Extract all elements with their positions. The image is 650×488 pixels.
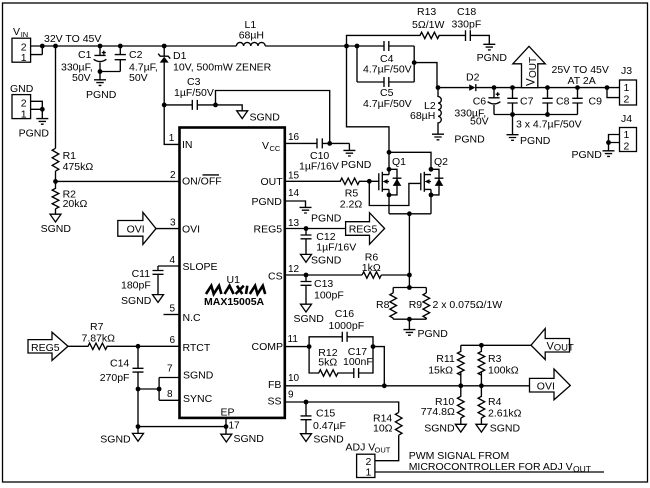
svg-text:12: 12: [288, 264, 300, 275]
svg-text:68µH: 68µH: [239, 30, 264, 42]
node VIN junction: [40, 44, 45, 49]
connector GND (J2) box: [10, 83, 34, 120]
svg-text:R7: R7: [90, 321, 104, 333]
svg-text:R4: R4: [488, 396, 502, 408]
capacitor C9: [572, 88, 602, 115]
resistor R9: [393, 288, 502, 320]
svg-text:R11: R11: [436, 353, 455, 365]
ground PGND pin 14: [300, 207, 312, 213]
node C15: [304, 400, 309, 405]
svg-text:IN: IN: [182, 139, 193, 151]
node C14 / SYNC branch: [136, 387, 141, 392]
node R3 top: [479, 343, 484, 348]
svg-text:C1: C1: [78, 49, 92, 61]
svg-text:SGND: SGND: [100, 434, 131, 446]
wire J4 pins to ground: [609, 135, 620, 151]
inductor L1: [236, 19, 265, 46]
svg-text:V: V: [526, 78, 538, 86]
svg-text:OVI: OVI: [537, 381, 555, 393]
svg-text:N.C: N.C: [183, 312, 202, 324]
svg-text:1µF/16V: 1µF/16V: [316, 242, 356, 254]
node R8R9 bottom: [407, 317, 412, 322]
svg-text:PGND: PGND: [19, 128, 50, 140]
svg-text:0.47µF: 0.47µF: [313, 420, 346, 432]
ground PGND below J4: [603, 151, 615, 157]
svg-text:OUT: OUT: [528, 57, 539, 78]
ground PGND below C18: [483, 44, 495, 50]
wire J3 pin2: [607, 88, 620, 98]
node R6 / sense column: [407, 273, 412, 278]
capacitor C6 (electrolytic): [454, 88, 500, 128]
svg-text:1: 1: [21, 52, 27, 64]
svg-text:SGND: SGND: [294, 313, 325, 325]
svg-text:1µF/16V: 1µF/16V: [299, 161, 339, 173]
resistor R13: [347, 6, 466, 46]
svg-text:SS: SS: [268, 396, 282, 408]
svg-text:1000pF: 1000pF: [329, 320, 365, 332]
ground PGND below R8R9: [403, 319, 415, 335]
svg-text:C15: C15: [316, 408, 335, 420]
svg-text:1kΩ: 1kΩ: [362, 262, 381, 274]
svg-text:IN: IN: [21, 30, 29, 39]
capacitor C8: [542, 88, 569, 115]
resistor R4: [478, 386, 522, 425]
ground SGND below R10: [455, 424, 466, 432]
node Q2 source: [429, 193, 434, 198]
svg-text:5kΩ: 5kΩ: [318, 357, 337, 369]
wire switch node row: [437, 87, 469, 89]
node COMP left: [307, 344, 312, 349]
svg-text:U1: U1: [227, 274, 241, 286]
wire to SGND/SYNC bracket: [138, 378, 180, 401]
svg-text:3: 3: [170, 218, 176, 229]
connector J4: [620, 113, 637, 153]
svg-text:C11: C11: [132, 268, 151, 280]
svg-text:14: 14: [288, 188, 300, 199]
node rail C4 tap: [355, 44, 360, 49]
svg-text:ADJ V: ADJ V: [346, 442, 376, 454]
svg-text:180pF: 180pF: [121, 280, 151, 292]
svg-text:SGND: SGND: [183, 370, 214, 382]
flag REG5 output: [346, 213, 385, 245]
node C3 left / D1 bottom: [162, 103, 167, 108]
wire ADJ pin1 PWM line: [375, 471, 604, 473]
svg-text:7: 7: [167, 364, 173, 375]
wire divider top bar to VOUT flag: [461, 344, 531, 346]
svg-text:2: 2: [624, 141, 630, 153]
capacitor C16: [309, 308, 373, 347]
svg-text:ON/OFF: ON/OFF: [182, 176, 222, 188]
svg-text:4: 4: [170, 255, 176, 266]
ground PGND below L2: [432, 134, 444, 140]
svg-text:V: V: [262, 140, 269, 152]
svg-text:1: 1: [21, 108, 27, 120]
svg-text:OUT: OUT: [261, 176, 284, 188]
svg-text:Q1: Q1: [392, 156, 406, 168]
svg-text:V: V: [13, 26, 20, 38]
svg-text:CS: CS: [268, 271, 283, 283]
capacitor C11 on SLOPE: [121, 266, 180, 295]
node C6 top: [492, 85, 497, 90]
svg-text:C8: C8: [556, 96, 570, 108]
svg-text:C14: C14: [110, 358, 129, 370]
svg-text:10: 10: [288, 373, 300, 384]
node source sense: [407, 211, 412, 216]
ground SGND below C13: [301, 304, 312, 312]
flag REG5 source to RTCT: [28, 332, 68, 360]
ground PGND right of C10: [343, 150, 355, 156]
svg-text:SGND: SGND: [424, 423, 455, 435]
svg-text:16: 16: [288, 132, 300, 143]
svg-text:SGND: SGND: [234, 433, 265, 445]
svg-text:32V TO 45V: 32V TO 45V: [44, 33, 101, 45]
wire drain feed from rail: [347, 46, 390, 152]
svg-text:17: 17: [229, 421, 241, 432]
svg-text:GND: GND: [10, 83, 34, 95]
capacitor C18: [452, 6, 490, 44]
ground PGND below C1: [94, 72, 106, 86]
svg-text:OUT: OUT: [375, 446, 391, 455]
flag VOUT on output rail: [513, 46, 546, 87]
node RTCT/C14: [136, 344, 141, 349]
node R1/R2/pin2: [53, 179, 58, 184]
svg-text:1: 1: [624, 129, 630, 141]
svg-text:2.61kΩ: 2.61kΩ: [488, 408, 522, 420]
wire C4C5 to switch node: [414, 63, 437, 88]
diode D1 zener: [158, 46, 271, 105]
capacitor C13: [301, 275, 344, 304]
capacitor C17: [343, 346, 373, 378]
wire pin 13 to C12 and flag: [285, 228, 346, 230]
svg-text:100kΩ: 100kΩ: [488, 365, 519, 377]
capacitor C4: [357, 41, 414, 76]
node C4C5 tap: [412, 60, 417, 65]
svg-text:C13: C13: [314, 278, 333, 290]
svg-text:OVI: OVI: [127, 223, 145, 235]
svg-text:OUT: OUT: [573, 464, 591, 474]
svg-text:REG5: REG5: [31, 342, 60, 354]
svg-text:SGND: SGND: [250, 112, 281, 124]
MAXIM logo: [206, 286, 265, 294]
wire pin 11 COMP: [285, 346, 309, 348]
svg-text:4.7µF/50V: 4.7µF/50V: [363, 64, 412, 76]
svg-text:15kΩ: 15kΩ: [428, 365, 453, 377]
node FB-R11: [458, 383, 463, 388]
node R8R9 top: [407, 285, 412, 290]
ground SGND near C3: [237, 111, 248, 119]
ground SGND below R2: [50, 214, 61, 222]
svg-text:C18: C18: [457, 6, 476, 18]
ground SGND below C14: [133, 433, 144, 441]
svg-text:SGND: SGND: [121, 295, 152, 307]
capacitor C2: [100, 46, 158, 84]
node switch/L2/D2: [436, 85, 441, 90]
node C2 top: [118, 44, 123, 49]
svg-text:10V, 500mW ZENER: 10V, 500mW ZENER: [173, 62, 272, 74]
svg-text:15: 15: [288, 171, 300, 182]
flag OVI output at FB row: [530, 369, 571, 400]
connector VIN (J1) box: [12, 26, 31, 64]
svg-text:J4: J4: [621, 113, 632, 125]
capacitor C15: [301, 402, 346, 434]
node C8 top: [545, 85, 550, 90]
svg-text:1: 1: [366, 467, 372, 479]
svg-text:C7: C7: [520, 96, 534, 108]
capacitor C12: [301, 229, 357, 255]
resistor R1: [52, 148, 93, 181]
wire main input rail: [56, 45, 358, 47]
svg-text:C9: C9: [589, 96, 603, 108]
node FB-R3: [479, 383, 484, 388]
wire pin 12 CS row: [285, 274, 410, 276]
capacitor C5: [357, 46, 414, 110]
svg-text:PGND: PGND: [418, 328, 449, 340]
svg-text:68µH: 68µH: [410, 110, 435, 122]
svg-text:RTCT: RTCT: [183, 342, 211, 354]
wire FB row: [285, 385, 530, 387]
svg-text:J3: J3: [621, 65, 632, 77]
ground SGND below R4: [476, 424, 487, 432]
wire common source: [389, 214, 431, 288]
svg-text:SGND: SGND: [41, 223, 72, 235]
svg-text:100nF: 100nF: [343, 356, 373, 368]
svg-text:7.87kΩ: 7.87kΩ: [82, 333, 116, 345]
svg-text:3 x 4.7µF/50V: 3 x 4.7µF/50V: [516, 119, 582, 131]
svg-text:13: 13: [288, 218, 300, 229]
wire to pin 2 ON/OFF: [56, 180, 180, 182]
resistor R5: [285, 178, 370, 210]
resistor R14: [373, 412, 402, 460]
svg-text:50V: 50V: [72, 72, 91, 84]
svg-text:10Ω: 10Ω: [373, 423, 393, 435]
svg-text:C16: C16: [335, 308, 354, 320]
svg-text:11: 11: [288, 334, 299, 345]
wire GND pins: [31, 101, 43, 118]
ground SGND below EP: [221, 434, 232, 442]
node C10 right / C3 riser: [327, 141, 332, 146]
node C3 right: [213, 103, 218, 108]
svg-text:C6: C6: [473, 96, 487, 108]
svg-text:D2: D2: [466, 72, 480, 84]
wire D1 to pin1 IN: [164, 105, 179, 144]
flag VOUT feeding dividers: [531, 329, 574, 360]
node C12: [304, 226, 309, 231]
wire OVI flag to pin 3: [156, 228, 180, 230]
wire gate link Q1-Q2: [369, 181, 421, 205]
svg-text:4.7µF/50V: 4.7µF/50V: [363, 98, 412, 110]
connector J3: [620, 65, 637, 106]
node C9 top: [575, 85, 580, 90]
svg-text:774.8Ω: 774.8Ω: [421, 406, 455, 418]
svg-text:100pF: 100pF: [314, 290, 344, 302]
svg-text:R13: R13: [417, 6, 436, 18]
svg-text:FB: FB: [268, 379, 281, 391]
node J3: [605, 85, 610, 90]
svg-text:2: 2: [624, 94, 630, 106]
capacitor C3: [164, 76, 215, 110]
svg-text:PGND: PGND: [252, 196, 283, 208]
svg-text:PGND: PGND: [520, 135, 551, 147]
node EP: [224, 424, 229, 429]
svg-text:MICROCONTROLLER FOR ADJ V: MICROCONTROLLER FOR ADJ V: [409, 461, 573, 473]
node drain split: [387, 150, 392, 155]
capacitor C1 (electrolytic): [61, 46, 106, 84]
svg-text:Q2: Q2: [434, 156, 448, 168]
capacitor C14: [100, 346, 144, 426]
transistor Q2: [421, 156, 448, 214]
svg-text:REG5: REG5: [349, 223, 378, 235]
svg-text:2.2Ω: 2.2Ω: [340, 199, 363, 211]
wire pin 9 SS row: [285, 402, 399, 412]
svg-text:270pF: 270pF: [100, 372, 130, 384]
svg-text:REG5: REG5: [254, 224, 283, 236]
node Q1 drain: [387, 167, 392, 172]
resistor R12: [309, 347, 354, 377]
svg-text:PGND: PGND: [341, 159, 372, 171]
svg-text:2 x 0.075Ω/1W: 2 x 0.075Ω/1W: [433, 299, 503, 311]
capacitor C7: [507, 88, 533, 115]
node bracket: [157, 387, 162, 392]
wire C3 riser to VCC/C10 node: [216, 91, 330, 144]
wire output rail: [476, 87, 620, 89]
diode D2: [466, 72, 480, 92]
svg-text:SGND: SGND: [313, 434, 344, 446]
wire pin 14 PGND stub: [285, 201, 306, 207]
node gate split: [367, 179, 372, 184]
connector ADJ VOUT box: [346, 442, 391, 479]
resistor R7: [68, 321, 180, 349]
svg-text:8: 8: [167, 389, 173, 400]
wire EP ground rail: [138, 418, 226, 434]
svg-text:R3: R3: [488, 353, 502, 365]
node rail/R1 tap: [53, 44, 58, 49]
svg-text:PGND: PGND: [477, 52, 508, 64]
node bus C7: [510, 112, 515, 117]
svg-text:OVI: OVI: [182, 224, 200, 236]
flag OVI input to pin 3: [118, 212, 156, 244]
ground SGND below C11: [153, 295, 164, 303]
resistor R10: [421, 386, 464, 425]
node rail drain tap: [344, 44, 349, 49]
node FB corner: [382, 383, 387, 388]
svg-text:1: 1: [624, 82, 630, 94]
svg-text:AT 2A: AT 2A: [568, 75, 596, 87]
svg-text:1: 1: [169, 133, 175, 144]
svg-text:OUT: OUT: [554, 343, 574, 354]
svg-text:EP: EP: [221, 407, 235, 419]
svg-text:SLOPE: SLOPE: [183, 261, 218, 273]
svg-text:2: 2: [170, 170, 176, 181]
svg-text:5: 5: [170, 304, 176, 315]
svg-text:PGND: PGND: [454, 134, 485, 146]
capacitor C10: [285, 138, 350, 172]
svg-text:50V: 50V: [470, 116, 489, 128]
node C7 top: [510, 85, 515, 90]
resistor R8: [376, 288, 426, 320]
svg-text:PGND: PGND: [311, 213, 342, 225]
resistor R6: [362, 252, 382, 279]
node Q2 drain: [429, 167, 434, 172]
svg-text:CC: CC: [270, 144, 281, 153]
svg-text:R8: R8: [376, 299, 390, 311]
ground PGND below bus: [507, 135, 519, 141]
svg-text:475kΩ: 475kΩ: [63, 161, 94, 173]
wire output cap bottom bus: [494, 115, 578, 135]
node Q1 source: [387, 193, 392, 198]
wire rail down to R1: [55, 46, 57, 148]
svg-text:50V: 50V: [129, 72, 148, 84]
node D1 top on rail: [162, 44, 167, 49]
svg-text:330pF: 330pF: [452, 19, 482, 31]
svg-text:20kΩ: 20kΩ: [63, 198, 88, 210]
transistor Q1: [369, 152, 406, 214]
ground SGND below C15: [301, 434, 312, 442]
svg-text:C2: C2: [129, 49, 143, 61]
svg-text:1µF/50V: 1µF/50V: [174, 87, 214, 99]
node GND junction: [40, 107, 45, 112]
node J4: [606, 140, 611, 145]
resistor R3: [478, 345, 519, 386]
svg-text:R9: R9: [409, 299, 423, 311]
node C14 bottom / EP wire: [136, 424, 141, 429]
svg-text:COMP: COMP: [252, 341, 284, 353]
svg-text:6: 6: [170, 335, 176, 346]
ground SGND below C12: [301, 254, 312, 262]
svg-text:PGND: PGND: [572, 149, 603, 161]
svg-text:SGND: SGND: [490, 423, 521, 435]
wire COMP to FB row: [373, 347, 384, 386]
resistor R2: [52, 181, 87, 214]
svg-text:D1: D1: [173, 50, 187, 62]
resistor R11: [428, 345, 464, 386]
inductor L2: [410, 88, 441, 134]
wire C3 to SGND stub: [216, 105, 243, 111]
svg-text:SYNC: SYNC: [183, 393, 213, 405]
node C13: [304, 273, 309, 278]
node C1 top: [98, 44, 103, 49]
svg-text:9: 9: [288, 390, 294, 401]
node COMP right: [371, 344, 376, 349]
node C1 bottom: [98, 69, 103, 74]
ground PGND of GND connector: [36, 119, 48, 125]
op-amp U1 IC body: [180, 128, 285, 418]
svg-text:MAX15005A: MAX15005A: [204, 296, 265, 308]
wire drain link to Q2: [389, 152, 431, 169]
svg-text:5Ω/1W: 5Ω/1W: [412, 19, 444, 31]
svg-text:PGND: PGND: [86, 89, 117, 101]
svg-text:SGND: SGND: [311, 255, 342, 267]
node bus C8: [545, 112, 550, 117]
wire VIN pin2 to rail: [31, 46, 56, 55]
